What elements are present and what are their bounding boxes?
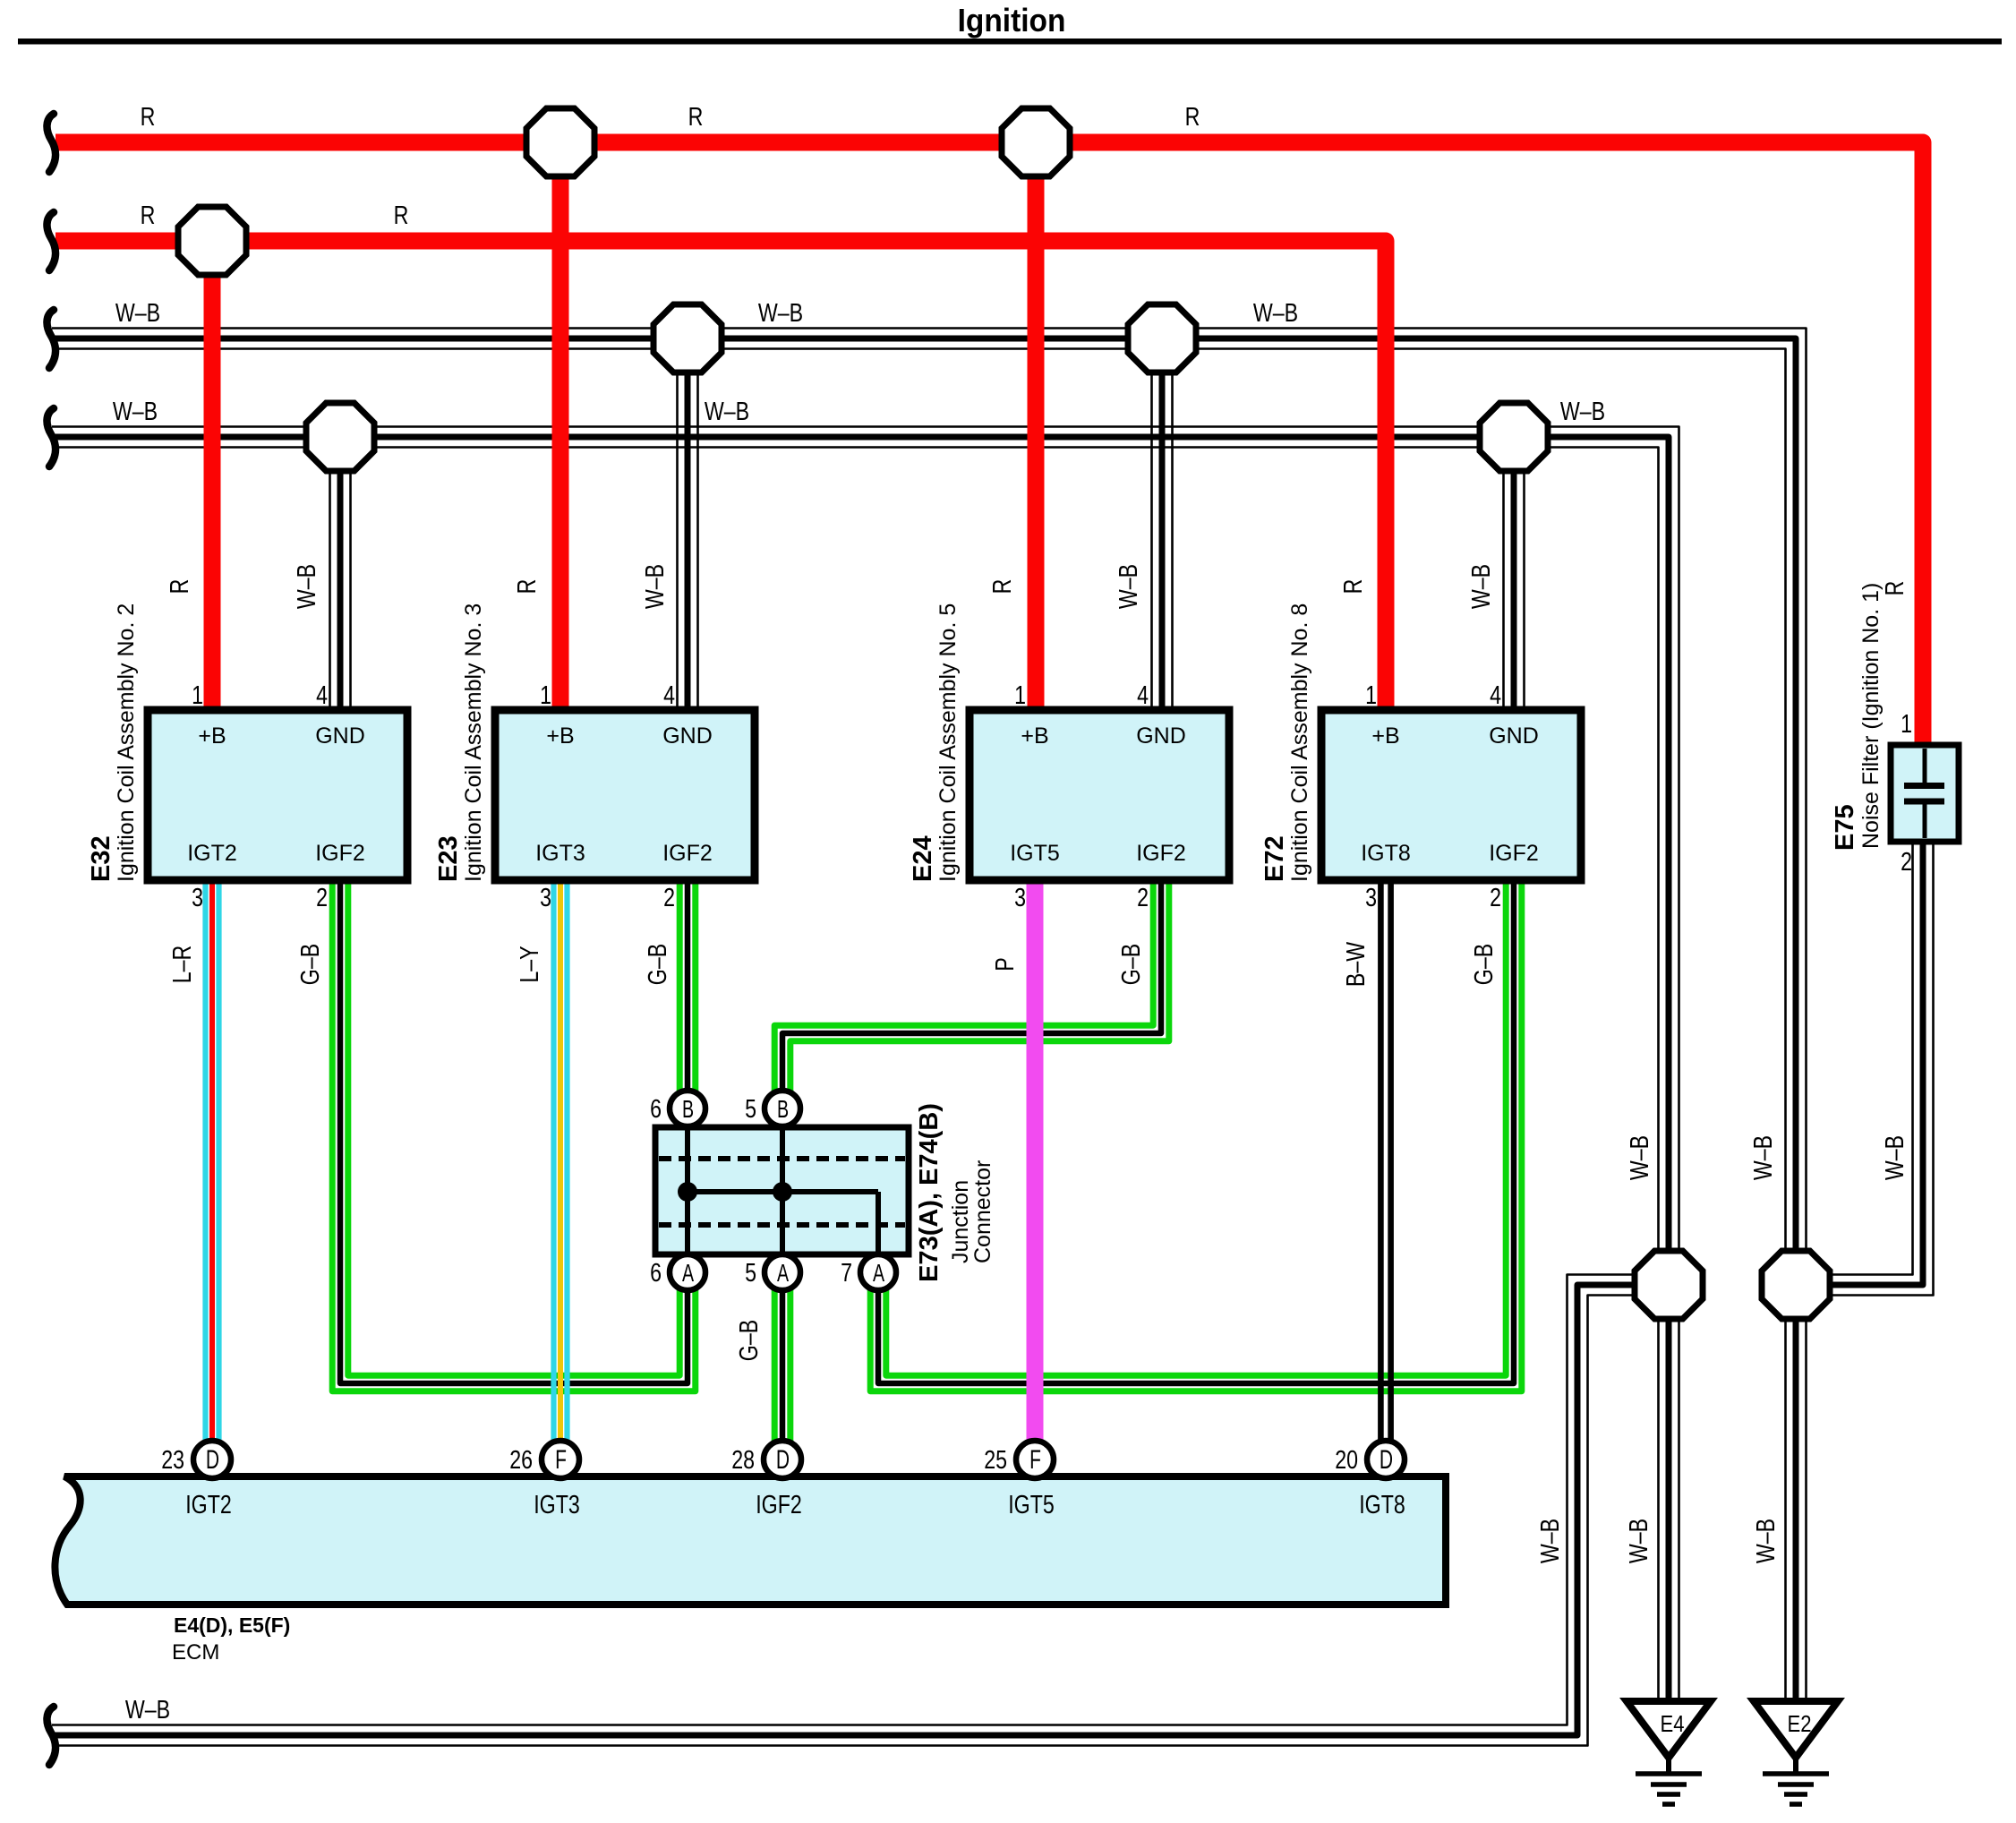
svg-text:R: R [688, 101, 704, 131]
svg-text:1: 1 [1365, 680, 1377, 709]
svg-text:Ignition: Ignition [958, 4, 1066, 39]
svg-text:W–B: W–B [1750, 1519, 1780, 1563]
svg-text:E73(A), E74(B): E73(A), E74(B) [915, 1103, 944, 1282]
svg-text:5: 5 [745, 1093, 756, 1123]
svg-text:26: 26 [509, 1444, 533, 1474]
svg-text:A: A [682, 1260, 695, 1288]
svg-text:25: 25 [984, 1444, 1007, 1474]
svg-text:2: 2 [1137, 882, 1149, 911]
svg-text:4: 4 [663, 680, 675, 709]
svg-text:7: 7 [841, 1257, 852, 1287]
svg-text:P: P [989, 957, 1019, 971]
svg-text:IGF2: IGF2 [1136, 841, 1186, 866]
svg-text:+B: +B [1371, 723, 1399, 749]
svg-text:20: 20 [1335, 1444, 1358, 1474]
svg-text:W–B: W–B [1253, 297, 1298, 327]
svg-text:G–B: G–B [295, 944, 324, 985]
svg-text:28: 28 [731, 1444, 755, 1474]
svg-text:W–B: W–B [291, 564, 320, 609]
svg-text:GND: GND [1136, 723, 1186, 749]
svg-text:W–B: W–B [1624, 1135, 1653, 1180]
svg-text:W–B: W–B [1465, 564, 1495, 609]
svg-text:Ignition Coil Assembly No. 5: Ignition Coil Assembly No. 5 [935, 603, 961, 882]
svg-text:R: R [1185, 101, 1200, 131]
svg-text:E72: E72 [1260, 835, 1289, 882]
svg-text:3: 3 [1365, 882, 1377, 911]
svg-text:E24: E24 [909, 835, 937, 882]
svg-text:W–B: W–B [639, 564, 669, 609]
svg-text:Noise Filter (Ignition No. 1): Noise Filter (Ignition No. 1) [1858, 583, 1884, 849]
svg-text:2: 2 [1490, 882, 1501, 911]
svg-text:23: 23 [161, 1444, 184, 1474]
svg-text:+B: +B [546, 723, 574, 749]
svg-text:ECM: ECM [172, 1640, 219, 1665]
svg-text:R: R [1337, 579, 1367, 595]
svg-text:Junction: Junction [948, 1180, 973, 1263]
svg-text:3: 3 [192, 882, 203, 911]
svg-text:D: D [776, 1446, 790, 1475]
svg-text:IGT5: IGT5 [1010, 841, 1060, 866]
svg-text:R: R [164, 579, 193, 595]
svg-text:IGT3: IGT3 [534, 1489, 580, 1519]
svg-text:W–B: W–B [1560, 396, 1605, 425]
svg-text:Ignition Coil Assembly No. 3: Ignition Coil Assembly No. 3 [461, 603, 486, 882]
svg-text:B: B [777, 1096, 789, 1124]
svg-text:1: 1 [1901, 708, 1912, 738]
svg-text:W–B: W–B [1623, 1519, 1653, 1563]
svg-text:E75: E75 [1831, 804, 1859, 851]
svg-text:IGT3: IGT3 [535, 841, 585, 866]
svg-text:B: B [682, 1096, 694, 1124]
svg-text:IGF2: IGF2 [315, 841, 365, 866]
svg-text:R: R [511, 579, 541, 595]
svg-text:E32: E32 [87, 835, 115, 882]
svg-text:E23: E23 [434, 835, 463, 882]
svg-text:3: 3 [540, 882, 551, 911]
svg-text:3: 3 [1014, 882, 1026, 911]
svg-text:R: R [987, 579, 1016, 595]
svg-text:W–B: W–B [125, 1694, 170, 1724]
svg-text:L–R: L–R [167, 946, 196, 984]
svg-text:D: D [1380, 1446, 1393, 1475]
svg-text:1: 1 [1014, 680, 1026, 709]
svg-text:Ignition Coil Assembly No. 2: Ignition Coil Assembly No. 2 [114, 603, 139, 882]
svg-text:IGT8: IGT8 [1359, 1489, 1405, 1519]
svg-text:A: A [777, 1260, 790, 1288]
svg-text:6: 6 [650, 1093, 662, 1123]
svg-text:+B: +B [1021, 723, 1048, 749]
svg-text:G–B: G–B [1115, 944, 1145, 985]
svg-text:W–B: W–B [758, 297, 803, 327]
svg-text:4: 4 [1490, 680, 1501, 709]
svg-text:F: F [1029, 1446, 1041, 1475]
svg-text:2: 2 [1901, 846, 1912, 876]
svg-text:R: R [141, 101, 156, 131]
svg-text:IGF2: IGF2 [662, 841, 713, 866]
svg-text:1: 1 [540, 680, 551, 709]
svg-text:2: 2 [316, 882, 328, 911]
svg-text:GND: GND [315, 723, 365, 749]
svg-text:Connector: Connector [970, 1160, 995, 1263]
svg-text:GND: GND [1489, 723, 1539, 749]
svg-text:E2: E2 [1787, 1711, 1811, 1737]
svg-text:D: D [206, 1446, 219, 1475]
svg-text:B–W: B–W [1340, 942, 1370, 987]
svg-text:W–B: W–B [1113, 564, 1142, 609]
svg-text:R: R [1879, 581, 1909, 596]
svg-text:IGF2: IGF2 [756, 1489, 802, 1519]
svg-text:E4(D), E5(F): E4(D), E5(F) [174, 1613, 290, 1637]
svg-text:F: F [555, 1446, 567, 1475]
svg-text:W–B: W–B [115, 297, 160, 327]
svg-text:4: 4 [1137, 680, 1149, 709]
svg-text:4: 4 [316, 680, 328, 709]
svg-text:R: R [141, 200, 156, 229]
svg-text:2: 2 [663, 882, 675, 911]
svg-text:G–B: G–B [733, 1320, 763, 1361]
svg-text:R: R [394, 200, 409, 229]
svg-text:IGT2: IGT2 [185, 1489, 232, 1519]
svg-text:W–B: W–B [705, 396, 749, 425]
svg-text:L–Y: L–Y [514, 946, 543, 982]
svg-text:Ignition Coil Assembly No. 8: Ignition Coil Assembly No. 8 [1287, 603, 1312, 882]
svg-text:1: 1 [192, 680, 203, 709]
svg-text:+B: +B [198, 723, 226, 749]
svg-text:W–B: W–B [1747, 1135, 1777, 1180]
svg-text:5: 5 [745, 1257, 756, 1287]
svg-text:6: 6 [650, 1257, 662, 1287]
svg-text:IGT8: IGT8 [1361, 841, 1411, 866]
svg-text:W–B: W–B [1879, 1135, 1909, 1180]
svg-text:G–B: G–B [1468, 944, 1498, 985]
svg-text:W–B: W–B [1534, 1519, 1564, 1563]
svg-text:A: A [873, 1260, 885, 1288]
svg-text:GND: GND [662, 723, 713, 749]
svg-text:W–B: W–B [113, 396, 158, 425]
svg-text:E4: E4 [1660, 1711, 1684, 1737]
svg-text:G–B: G–B [642, 944, 671, 985]
svg-text:IGT5: IGT5 [1008, 1489, 1055, 1519]
svg-text:IGF2: IGF2 [1489, 841, 1539, 866]
svg-text:IGT2: IGT2 [187, 841, 237, 866]
